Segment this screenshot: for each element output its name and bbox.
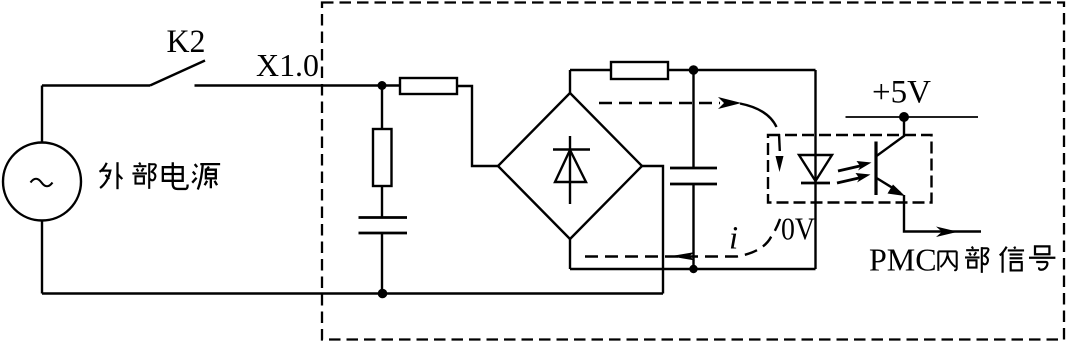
resistor R1 xyxy=(400,78,457,94)
resistor R3 xyxy=(611,62,668,79)
wire bottom inner rail xyxy=(570,268,816,270)
switch K2 blade xyxy=(150,61,205,86)
node junction bottom cap xyxy=(689,265,697,273)
AC source V1 xyxy=(3,143,81,221)
wire bottom rail xyxy=(42,292,663,294)
wire R2 to C1 xyxy=(381,186,383,217)
+5V rail xyxy=(846,116,979,118)
svg-text:X1.0: X1.0 xyxy=(256,47,319,83)
optocoupler LED D2 xyxy=(799,155,832,183)
output arrowhead xyxy=(936,227,958,238)
light arrow 1 xyxy=(838,161,872,171)
svg-text:+5V: +5V xyxy=(872,75,931,111)
svg-text:i: i xyxy=(729,221,738,257)
svg-text:K2: K2 xyxy=(167,24,206,60)
wire R1 to bridge xyxy=(457,86,498,166)
label PMC内部信号 xyxy=(869,242,1055,278)
wire C2 top lead xyxy=(692,70,694,168)
label 外部电源 xyxy=(100,162,221,189)
wire bridge right vertex to outer return xyxy=(642,166,663,294)
phototransistor Q1 xyxy=(876,117,904,195)
optocoupler U1 dashed box xyxy=(768,135,932,203)
wire junction to R2 xyxy=(381,86,383,130)
Q1 emitter arrowhead xyxy=(888,185,906,197)
resistor R2 xyxy=(373,129,392,186)
svg-text:0V: 0V xyxy=(781,211,815,247)
wire C2 bottom lead xyxy=(692,184,694,269)
node junction bottom xyxy=(378,289,388,299)
capacitor C2 xyxy=(670,168,717,184)
wire top rail to switch xyxy=(42,84,150,86)
bridge rectifier D1 diamond xyxy=(498,93,642,239)
node junction top cap xyxy=(689,65,699,75)
node junction X1.0 xyxy=(378,81,387,90)
wire V1 bottom lead xyxy=(41,221,43,294)
bridge diode symbol xyxy=(553,136,590,204)
light arrow 2 xyxy=(837,173,871,183)
current return dashed arrow with label i xyxy=(585,213,782,261)
wire switch to junction xyxy=(195,84,401,86)
wire bridge bottom riser xyxy=(569,239,571,269)
svg-text:PMC: PMC xyxy=(869,242,937,278)
PMC module boundary dashed box xyxy=(322,3,1064,340)
wire Q1 emitter output xyxy=(904,195,981,232)
wire bridge top riser xyxy=(569,70,571,93)
wire C1 to bottom rail xyxy=(381,233,383,294)
node +5V xyxy=(899,112,909,122)
wire V1 top lead xyxy=(41,86,43,143)
wire right rail through LED xyxy=(814,70,816,269)
wire top rail xyxy=(570,69,816,71)
current path dashed arrow top xyxy=(599,97,784,172)
capacitor C1 xyxy=(359,218,408,234)
